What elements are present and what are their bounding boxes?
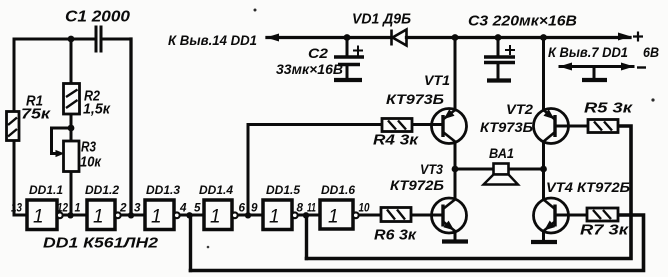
svg-text:С1 2000: С1 2000 xyxy=(65,9,130,26)
node 8/11 xyxy=(303,212,309,218)
wire R3 wiper loop xyxy=(52,128,72,154)
transistor VT2 xyxy=(534,109,569,144)
svg-text:С3 220мк×16В: С3 220мк×16В xyxy=(468,13,577,30)
svg-text:1: 1 xyxy=(33,207,44,228)
resistor R7 xyxy=(587,208,618,221)
resistor R1 xyxy=(7,112,20,141)
svg-text:75к: 75к xyxy=(21,106,52,123)
svg-text:КТ973Б: КТ973Б xyxy=(386,92,445,107)
node R3/DD1.1-DD1.2 xyxy=(67,212,73,218)
C2 plus sign xyxy=(353,46,363,56)
gate DD1.5 xyxy=(263,200,298,230)
svg-text:11: 11 xyxy=(307,203,316,215)
wire R7 to right vertical and feedback to node4/5 xyxy=(191,215,644,271)
wire C2 leads xyxy=(346,38,349,78)
svg-text:5: 5 xyxy=(194,203,201,215)
wire top rail left of diode xyxy=(267,36,391,39)
battery common T-bar xyxy=(582,78,607,82)
svg-text:10к: 10к xyxy=(80,154,102,171)
svg-text:1,5к: 1,5к xyxy=(83,101,111,118)
node R3 wiper junction xyxy=(68,125,75,132)
wire battery minus middle drop xyxy=(593,67,596,78)
VT3 emitter T-bar xyxy=(442,239,468,243)
capacitor C2 xyxy=(334,57,364,65)
wire VT2 emitter up xyxy=(542,38,545,110)
scan speck xyxy=(651,98,654,101)
svg-text:6В: 6В xyxy=(643,45,659,60)
wire top rail right of diode xyxy=(407,36,631,39)
scan speck xyxy=(207,246,210,249)
svg-text:DD1.6: DD1.6 xyxy=(321,185,356,197)
node C1/DD1.2-DD1.3 xyxy=(128,212,134,218)
svg-text:6: 6 xyxy=(239,203,246,215)
svg-text:1: 1 xyxy=(328,207,339,228)
svg-text:1: 1 xyxy=(269,207,280,228)
capacitor C1 xyxy=(96,26,101,53)
svg-text:С2: С2 xyxy=(308,46,329,61)
trimmer R3 xyxy=(64,141,80,172)
svg-text:R5 3к: R5 3к xyxy=(584,100,634,117)
VT3 emitter arrow (NPN) xyxy=(443,221,456,234)
node 6/9 xyxy=(245,212,251,218)
svg-text:КТ972Б: КТ972Б xyxy=(390,178,444,193)
svg-text:1: 1 xyxy=(93,207,104,228)
resistor R5 xyxy=(588,120,618,133)
wire VT4 base to R7 xyxy=(558,214,587,217)
arrow to pin14 xyxy=(266,34,279,42)
gate DD1.2 xyxy=(87,200,121,230)
svg-text:DD1.3: DD1.3 xyxy=(146,185,181,197)
svg-text:R7 3к: R7 3к xyxy=(580,222,630,239)
svg-text:1: 1 xyxy=(75,203,81,215)
wire node4/5 down xyxy=(189,215,192,271)
svg-text:R6 3к: R6 3к xyxy=(374,227,417,244)
svg-text:13: 13 xyxy=(11,203,23,215)
C3 plus sign xyxy=(505,45,515,55)
svg-text:К Выв.7 DD1: К Выв.7 DD1 xyxy=(548,45,628,60)
wire VT2 base to R5 xyxy=(558,125,588,128)
VT1 emitter arrow (PNP) xyxy=(441,109,454,122)
plus sign battery xyxy=(633,32,643,42)
svg-text:DD1.5: DD1.5 xyxy=(266,185,301,197)
wire VT3 collector up xyxy=(454,169,457,199)
wire top-left loop top xyxy=(14,38,131,41)
svg-text:ВА1: ВА1 xyxy=(489,146,514,161)
C3 common T-bar xyxy=(487,78,511,82)
transistor VT1 xyxy=(432,109,467,144)
svg-text:К Выв.14 DD1: К Выв.14 DD1 xyxy=(168,33,257,48)
scan speck xyxy=(254,9,257,12)
svg-text:DD1.4: DD1.4 xyxy=(199,185,234,197)
node VT2 emitter rail xyxy=(540,34,547,41)
svg-text:DD1 К561ЛН2: DD1 К561ЛН2 xyxy=(43,235,159,252)
wire gate row horizontal xyxy=(14,214,443,217)
svg-text:3: 3 xyxy=(134,203,141,215)
wire BA1 row xyxy=(455,168,544,171)
svg-text:9: 9 xyxy=(251,203,258,215)
svg-text:1: 1 xyxy=(210,207,221,228)
VT2 emitter arrow (PNP) xyxy=(543,109,556,122)
resistor R6 xyxy=(381,208,411,222)
svg-text:VT3: VT3 xyxy=(420,162,443,177)
node C3 rail xyxy=(495,34,502,41)
wire VT2 collector down xyxy=(542,142,545,169)
wire R2/R3 chain vertical xyxy=(70,39,73,215)
VT4 emitter arrow (NPN) xyxy=(542,221,555,234)
svg-text:DD1.1: DD1.1 xyxy=(29,185,63,197)
capacitor C3 xyxy=(484,57,515,63)
C2 common T-bar xyxy=(334,78,362,82)
wire VT1 collector down xyxy=(454,142,457,169)
svg-text:12: 12 xyxy=(57,203,69,215)
minus sign xyxy=(637,66,646,68)
svg-text:33мк×16В: 33мк×16В xyxy=(276,62,343,77)
gate DD1.3 xyxy=(145,200,180,230)
diode VD1 xyxy=(392,30,407,46)
VT4 emitter T-bar xyxy=(531,240,557,244)
node R2 top xyxy=(68,36,75,43)
node C2/VD1 xyxy=(344,34,351,41)
gate DD1.1 xyxy=(27,200,63,230)
wire left vertical xyxy=(13,39,16,215)
wire battery minus line xyxy=(560,65,633,68)
battery minus arrows xyxy=(559,63,572,71)
node VT1 emitter rail xyxy=(452,34,459,41)
wire node8/11 down xyxy=(305,215,308,259)
svg-text:VT2: VT2 xyxy=(506,102,534,117)
node 4/5 xyxy=(186,212,192,218)
R3 wiper arrow xyxy=(56,150,65,157)
svg-text:10: 10 xyxy=(359,203,371,215)
wire VT1 emitter up xyxy=(454,38,457,110)
wire VT4 collector up xyxy=(542,169,545,199)
wire right vertical of C1 loop (node 2/3 up) xyxy=(129,39,132,215)
gate DD1.4 xyxy=(204,200,238,230)
svg-text:КТ973Б: КТ973Б xyxy=(480,120,533,135)
wire VT3 emitter down xyxy=(454,232,457,241)
transistor VT4 xyxy=(534,198,569,233)
svg-text:1: 1 xyxy=(151,207,162,228)
svg-text:8: 8 xyxy=(297,203,304,215)
node VT2/VT4/BA1 xyxy=(540,166,547,173)
node VT1/VT3/BA1 xyxy=(452,166,459,173)
svg-text:R4 3к: R4 3к xyxy=(373,132,420,149)
gate DD1.6 xyxy=(320,200,359,229)
resistor R2 xyxy=(64,84,80,115)
svg-text:DD1.2: DD1.2 xyxy=(85,185,120,197)
svg-text:VT1: VT1 xyxy=(424,73,450,88)
wire node6/9 up to R4 xyxy=(248,125,382,216)
wire C3 leads xyxy=(497,38,500,79)
speaker BA1 xyxy=(484,164,519,185)
svg-text:VT4 КТ972Б: VT4 КТ972Б xyxy=(546,180,630,195)
resistor R4 xyxy=(382,119,412,132)
wire R5 to right vertical and feedback to node8/11 xyxy=(307,126,632,259)
wire VT4 emitter down xyxy=(542,232,545,241)
wire VT1 base lead xyxy=(412,123,443,126)
svg-text:2: 2 xyxy=(119,203,127,215)
svg-text:VD1 Д9Б: VD1 Д9Б xyxy=(352,11,411,28)
svg-text:4: 4 xyxy=(179,203,187,215)
rail plus arrow xyxy=(618,33,631,41)
transistor VT3 xyxy=(432,198,467,233)
